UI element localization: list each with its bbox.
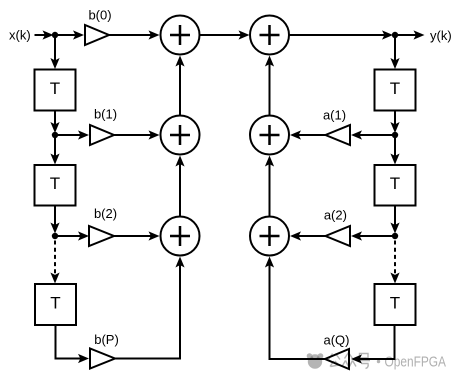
svg-text:b(1): b(1)	[94, 107, 117, 122]
wire output node down to T1R	[390, 35, 399, 69]
delay T1 left	[35, 70, 76, 111]
wire b(1) to adder S3	[114, 130, 160, 139]
svg-text:a(2): a(2)	[324, 208, 347, 223]
wire T3R down and left to a(Q)	[351, 325, 395, 364]
watermark logo	[307, 353, 324, 368]
delay T2 right	[375, 165, 416, 206]
adder S4	[250, 116, 289, 155]
svg-text:T: T	[50, 79, 60, 98]
dashed wire node A2 down to T3R	[390, 241, 399, 284]
dashed wire node B2 down to T3L	[50, 241, 59, 284]
adder S6	[250, 217, 289, 256]
amplifier b(P)	[90, 349, 115, 369]
svg-text:x(k): x(k)	[9, 28, 31, 43]
delay T2 left	[35, 165, 76, 206]
wire b(0) to adder S1	[109, 30, 160, 39]
delay T1 right	[375, 70, 416, 111]
wire a(1) to adder S4	[290, 130, 326, 139]
node output junction	[392, 32, 398, 38]
wire output node to y(k)	[395, 30, 425, 39]
wire x(k) to input node	[35, 30, 54, 39]
wire node to b(0)	[55, 30, 84, 39]
delay T3 left	[35, 284, 76, 325]
svg-text:T: T	[390, 294, 400, 313]
node A1 junction	[392, 132, 398, 138]
svg-text:T: T	[390, 174, 400, 193]
amplifier b(1)	[90, 125, 114, 145]
wire node A1 to a(1)	[351, 130, 395, 139]
svg-text:y(k): y(k)	[430, 28, 452, 43]
amplifier a(Q)	[325, 349, 349, 369]
svg-text:b(P): b(P)	[94, 332, 119, 347]
svg-text:T: T	[50, 174, 60, 193]
wire T3L down and right to b(P)	[56, 325, 90, 363]
amplifier b(0)	[85, 25, 109, 45]
wire b(2) to adder S5	[114, 231, 160, 240]
wire node B2 to b(2)	[55, 231, 89, 240]
svg-text:T: T	[50, 294, 60, 313]
wire a(Q) left and up to S6	[265, 257, 325, 360]
wire node A1 down to T2R	[390, 135, 399, 165]
svg-text:a(Q): a(Q)	[324, 333, 350, 348]
wire a(2) to adder S6	[290, 231, 326, 240]
svg-text:a(1): a(1)	[323, 108, 346, 123]
adder S2	[250, 16, 289, 55]
amplifier a(2)	[326, 226, 351, 246]
wire node B1 to b(1)	[55, 130, 89, 139]
wire T1L to node B1	[50, 111, 59, 134]
adder S1	[161, 16, 200, 55]
watermark dot separator	[377, 360, 380, 363]
amplifier b(2)	[89, 226, 114, 246]
delay T3 right	[375, 284, 416, 325]
wire T2R to node A2	[390, 206, 399, 234]
wire S3 up to S1	[175, 56, 184, 116]
wire S6 up to S4	[265, 156, 274, 217]
node B1 junction	[52, 132, 58, 138]
wire b(P) right and up to S5	[115, 257, 185, 359]
adder S5	[161, 217, 200, 256]
wire input node down to T1L	[50, 35, 59, 69]
node B2 junction	[52, 233, 58, 239]
wire node B1 down to T2L	[50, 135, 59, 165]
svg-text:b(2): b(2)	[94, 206, 117, 221]
wire S4 up to S2	[265, 56, 274, 116]
svg-text:T: T	[390, 79, 400, 98]
adder S3	[161, 116, 200, 155]
amplifier a(1)	[326, 125, 351, 145]
wire T1R to node A1	[390, 111, 399, 134]
node input junction	[52, 32, 58, 38]
wire S1 to S2	[200, 30, 250, 39]
node A2 junction	[392, 233, 398, 239]
wire S5 up to S3	[175, 156, 184, 217]
wire T2L to node B2	[50, 206, 59, 234]
svg-text:b(0): b(0)	[88, 8, 111, 23]
watermark text 公众号	[329, 353, 371, 369]
wire S2 to output node	[289, 30, 393, 39]
wire node A2 to a(2)	[351, 231, 395, 240]
